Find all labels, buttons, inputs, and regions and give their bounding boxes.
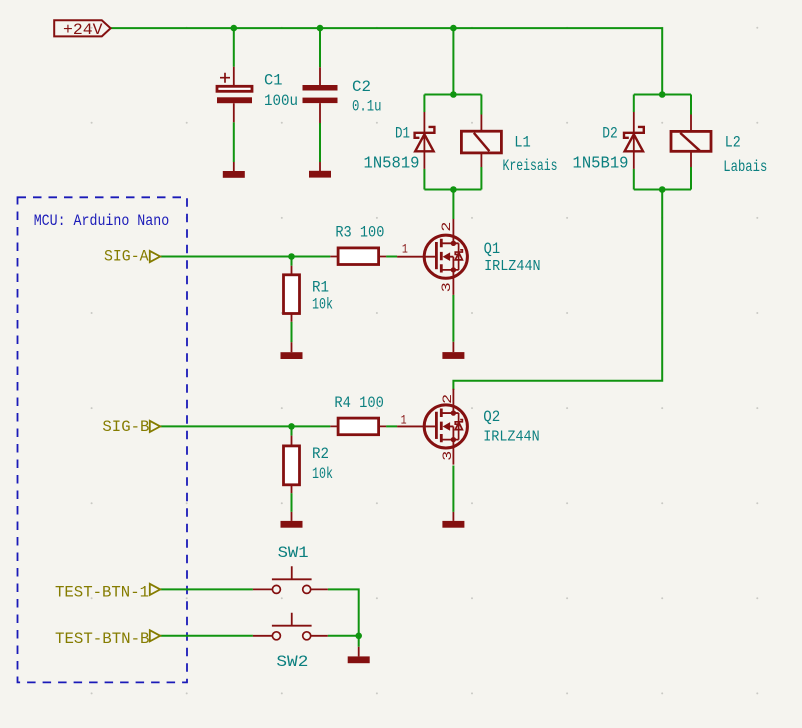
svg-text:1: 1 [401, 414, 407, 428]
svg-text:L1: L1 [514, 134, 531, 152]
svg-text:0.1u: 0.1u [352, 98, 382, 116]
svg-text:R2: R2 [312, 445, 329, 463]
svg-text:1N5819: 1N5819 [364, 155, 420, 174]
svg-text:C1: C1 [264, 72, 283, 90]
svg-text:1N5B19: 1N5B19 [573, 155, 629, 174]
svg-text:C2: C2 [352, 78, 371, 96]
svg-text:+24V: +24V [63, 21, 103, 39]
svg-text:MCU: Arduino Nano: MCU: Arduino Nano [34, 212, 170, 230]
svg-text:100u: 100u [264, 92, 298, 110]
svg-text:SW2: SW2 [276, 653, 308, 671]
svg-text:3: 3 [440, 282, 454, 292]
svg-text:L2: L2 [725, 134, 741, 152]
svg-text:2: 2 [441, 394, 455, 404]
svg-text:D1: D1 [395, 125, 410, 143]
svg-text:3: 3 [441, 451, 455, 461]
svg-text:10k: 10k [312, 465, 333, 483]
svg-text:2: 2 [440, 222, 454, 232]
svg-text:TEST-BTN-B: TEST-BTN-B [55, 630, 150, 648]
svg-text:Q1: Q1 [484, 240, 501, 258]
svg-text:IRLZ44N: IRLZ44N [484, 258, 540, 275]
svg-text:R1: R1 [312, 279, 329, 297]
svg-text:SIG-A: SIG-A [104, 248, 149, 266]
svg-text:R4 100: R4 100 [334, 394, 384, 412]
svg-text:10k: 10k [312, 296, 333, 314]
svg-text:SW1: SW1 [278, 544, 309, 562]
svg-text:SIG-B: SIG-B [102, 418, 149, 436]
svg-text:Kreisais: Kreisais [503, 157, 558, 175]
svg-text:Q2: Q2 [483, 408, 500, 426]
svg-text:1: 1 [402, 243, 408, 257]
svg-text:D2: D2 [602, 125, 618, 143]
svg-text:Labais: Labais [723, 158, 767, 176]
svg-text:IRLZ44N: IRLZ44N [483, 429, 540, 446]
svg-text:TEST-BTN-1: TEST-BTN-1 [55, 584, 149, 602]
svg-text:R3 100: R3 100 [335, 224, 384, 242]
